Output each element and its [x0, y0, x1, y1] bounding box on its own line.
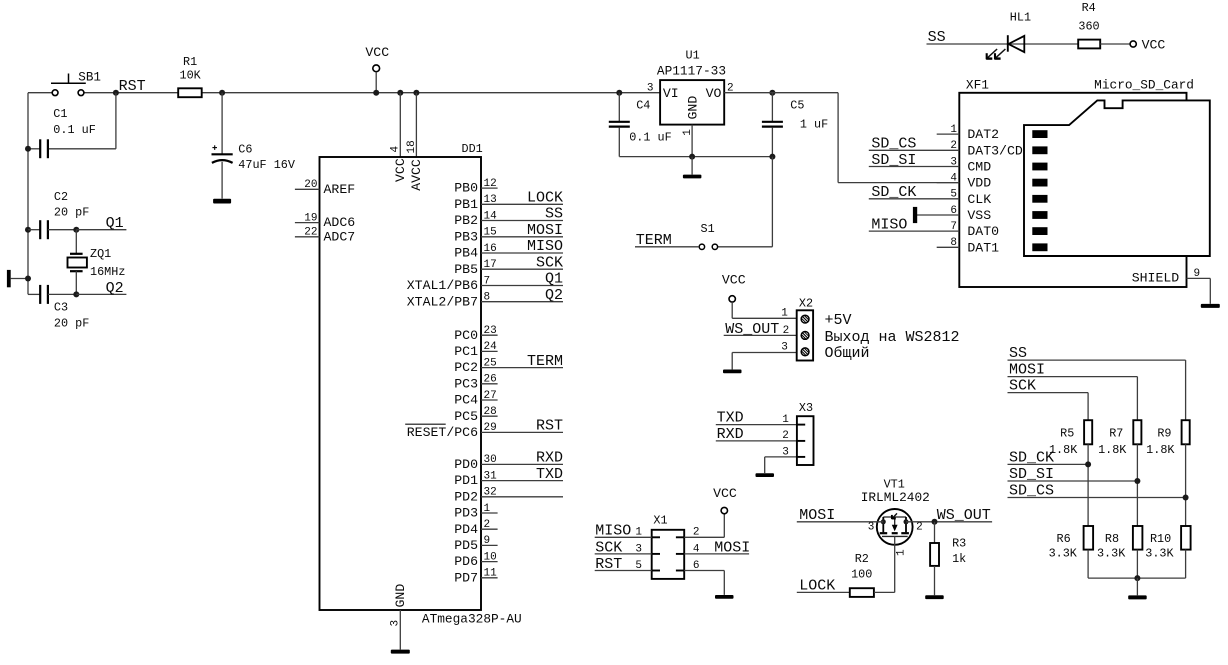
svg-text:15: 15: [484, 227, 497, 239]
svg-text:VO: VO: [706, 86, 722, 101]
svg-text:RXD: RXD: [717, 426, 744, 443]
connector X3 body: [797, 401, 814, 465]
svg-text:3.3K: 3.3K: [1049, 546, 1078, 560]
wire U1 ground net: [619, 125, 775, 175]
svg-text:1 uF: 1 uF: [800, 117, 828, 131]
svg-text:25: 25: [484, 357, 497, 369]
svg-text:30: 30: [484, 454, 497, 466]
svg-text:MISO: MISO: [527, 238, 563, 255]
svg-text:4: 4: [693, 543, 700, 555]
power VCC symbol top: [365, 45, 389, 96]
resistor R5 1.8K: [1049, 420, 1092, 526]
svg-text:CMD: CMD: [967, 160, 991, 175]
node SS net wire to R9: [1008, 345, 1186, 420]
svg-text:24: 24: [484, 341, 498, 353]
svg-text:RESET/PC6: RESET/PC6: [407, 425, 478, 440]
svg-text:WS_OUT: WS_OUT: [725, 321, 779, 338]
svg-text:17: 17: [484, 259, 497, 271]
svg-text:R1: R1: [183, 55, 197, 69]
ground below U1: [683, 175, 702, 179]
svg-text:5: 5: [950, 189, 957, 201]
svg-text:AREF: AREF: [324, 182, 356, 197]
pin 3 GND bottom: [390, 584, 408, 650]
pin 13 PB1 net LOCK: [454, 190, 563, 212]
svg-text:100: 100: [851, 568, 872, 582]
wire VO output rail: [724, 92, 838, 94]
svg-text:Q1: Q1: [545, 271, 563, 288]
svg-text:C1: C1: [53, 107, 67, 121]
svg-text:2: 2: [693, 527, 700, 539]
svg-text:4: 4: [950, 172, 957, 184]
svg-text:SB1: SB1: [78, 70, 101, 84]
svg-text:47uF 16V: 47uF 16V: [238, 158, 296, 172]
svg-text:3: 3: [635, 543, 642, 555]
svg-text:9: 9: [1194, 268, 1201, 280]
svg-text:MOSI: MOSI: [799, 507, 835, 524]
pin 20 AREF: [295, 179, 355, 197]
wire X2 pin 1: [732, 308, 797, 320]
svg-text:32: 32: [484, 487, 497, 499]
svg-text:ADC7: ADC7: [324, 229, 356, 244]
svg-text:Общий: Общий: [825, 345, 870, 362]
regulator U1 AP1117-33: [647, 49, 734, 125]
pin 4 VDD: [937, 172, 992, 190]
svg-text:R2: R2: [855, 552, 869, 566]
svg-text:16: 16: [484, 243, 497, 255]
wire X3 pin 3 to ground: [765, 446, 797, 473]
svg-text:PB5: PB5: [454, 262, 478, 277]
svg-text:Q1: Q1: [106, 215, 124, 232]
wire VT1 gate pin 1: [895, 536, 908, 592]
wire resistor network common to ground: [1088, 575, 1186, 595]
svg-text:3: 3: [868, 522, 875, 534]
pin 8 XTAL2/PB7 net Q2: [407, 287, 563, 309]
svg-text:C5: C5: [790, 99, 804, 113]
svg-text:PC0: PC0: [454, 328, 478, 343]
svg-text:PD6: PD6: [454, 554, 478, 569]
svg-text:VCC: VCC: [1142, 37, 1166, 52]
svg-text:1: 1: [484, 503, 491, 515]
ground below DD1: [391, 650, 410, 654]
svg-text:Micro_SD_Card: Micro_SD_Card: [1094, 77, 1194, 92]
svg-text:R9: R9: [1157, 427, 1171, 441]
svg-text:11: 11: [484, 568, 498, 580]
pin 30 PD0 net RXD: [454, 450, 563, 472]
node SCK net wire X1 pin 3: [595, 539, 652, 556]
svg-text:PD7: PD7: [454, 570, 478, 585]
svg-text:RST: RST: [595, 556, 622, 573]
svg-text:PC4: PC4: [454, 393, 478, 408]
svg-text:DAT3/CD: DAT3/CD: [967, 143, 1022, 158]
svg-text:RXD: RXD: [536, 450, 563, 467]
svg-text:X1: X1: [653, 513, 667, 527]
power VCC above X2: [722, 273, 746, 319]
svg-text:PC5: PC5: [454, 409, 478, 424]
wire RST to C1: [48, 93, 116, 149]
connector XF1 Micro_SD_Card body: [959, 77, 1194, 287]
svg-text:VCC: VCC: [713, 486, 737, 501]
ground below resistor network: [1128, 595, 1147, 599]
svg-text:4: 4: [390, 146, 402, 153]
svg-text:R6: R6: [1057, 532, 1071, 546]
svg-text:3: 3: [781, 342, 788, 354]
node RST net wire X1 pin 5: [595, 556, 652, 573]
svg-text:R7: R7: [1109, 427, 1123, 441]
ground below R3: [925, 595, 944, 599]
svg-text:VI: VI: [663, 86, 679, 101]
svg-text:1: 1: [782, 414, 789, 426]
wire main VCC/RST rail: [28, 92, 660, 94]
svg-text:1.8K: 1.8K: [1098, 443, 1127, 457]
pin 12 PB0: [454, 178, 497, 196]
svg-text:VCC: VCC: [722, 273, 746, 288]
wire VDD link to SD card: [838, 93, 959, 183]
pin 11 PD7: [454, 568, 497, 586]
svg-text:31: 31: [484, 470, 498, 482]
svg-text:Q2: Q2: [106, 280, 124, 297]
svg-text:3.3K: 3.3K: [1145, 546, 1174, 560]
pin 22 ADC7: [295, 227, 355, 245]
svg-text:1: 1: [950, 124, 957, 136]
svg-text:S1: S1: [701, 222, 715, 236]
svg-text:XTAL1/PB6: XTAL1/PB6: [407, 278, 478, 293]
capacitor C6 47uF 16V electrolytic: [212, 90, 296, 199]
svg-text:C4: C4: [636, 99, 650, 113]
svg-text:MISO: MISO: [871, 217, 907, 234]
svg-text:2: 2: [950, 140, 957, 152]
svg-text:0.1 uF: 0.1 uF: [629, 131, 671, 145]
power VCC right of R4: [1130, 37, 1165, 52]
resistor R3 1k: [930, 522, 966, 595]
svg-text:1: 1: [781, 308, 788, 320]
svg-text:TXD: TXD: [717, 410, 744, 427]
svg-text:ADC6: ADC6: [324, 215, 356, 230]
pin 28 PC5: [454, 406, 497, 424]
svg-text:MOSI: MOSI: [527, 222, 563, 239]
wire left vertical bus: [27, 93, 29, 295]
svg-text:R8: R8: [1105, 532, 1119, 546]
SD card outline glyph: [1024, 100, 1210, 256]
svg-text:PD5: PD5: [454, 538, 478, 553]
pin 4 VCC label: [390, 146, 408, 183]
svg-text:AVCC: AVCC: [409, 159, 424, 191]
pin 25 PC2 net TERM: [454, 353, 563, 375]
svg-text:3: 3: [950, 156, 957, 168]
svg-text:X3: X3: [799, 401, 813, 415]
svg-text:SS: SS: [545, 206, 563, 223]
svg-text:ZQ1: ZQ1: [90, 247, 111, 261]
svg-text:IRLML2402: IRLML2402: [861, 490, 930, 505]
wire X1 pin 6 to ground: [684, 560, 724, 595]
svg-text:3: 3: [390, 620, 402, 627]
svg-text:1: 1: [635, 527, 642, 539]
SD card contact pads: [1032, 130, 1047, 251]
svg-text:XF1: XF1: [966, 77, 989, 92]
svg-text:6: 6: [950, 205, 957, 217]
node SD_SI net wire: [1008, 466, 1141, 484]
svg-text:PB4: PB4: [454, 246, 478, 261]
svg-text:RST: RST: [536, 418, 563, 435]
svg-text:16MHz: 16MHz: [90, 265, 125, 279]
wire AVCC pin 18 drop: [413, 90, 419, 157]
node SCK net wire to R5: [1008, 378, 1089, 421]
node WS_OUT net wire from VT1 pin 2: [906, 507, 992, 525]
node WS_OUT2 net wire pin 2: [724, 321, 797, 338]
IC DD1 ATmega328P-AU body: [320, 142, 522, 627]
pin 6 VSS: [913, 205, 991, 223]
svg-text:14: 14: [484, 210, 498, 222]
svg-text:360: 360: [1078, 20, 1099, 34]
svg-text:GND: GND: [686, 96, 701, 120]
svg-text:1: 1: [896, 549, 908, 556]
svg-text:20 pF: 20 pF: [54, 206, 89, 220]
svg-text:VSS: VSS: [967, 208, 991, 223]
svg-text:DAT1: DAT1: [967, 240, 999, 255]
svg-text:HL1: HL1: [1010, 11, 1031, 25]
svg-text:PC3: PC3: [454, 376, 478, 391]
resistor R7 1.8K: [1098, 420, 1141, 526]
svg-text:7: 7: [950, 221, 957, 233]
pin 27 PC4: [454, 390, 497, 408]
pin 9 SHIELD: [1132, 268, 1211, 304]
resistor R6 3.3K: [1049, 526, 1094, 578]
svg-text:2: 2: [916, 522, 923, 534]
svg-text:DAT2: DAT2: [967, 127, 999, 142]
pin 14 PB2 net SS: [454, 206, 563, 228]
svg-text:PB0: PB0: [454, 181, 478, 196]
svg-text:C6: C6: [238, 142, 252, 156]
svg-text:R4: R4: [1082, 1, 1096, 15]
pin 1 PD3: [454, 503, 497, 521]
svg-text:PB2: PB2: [454, 213, 478, 228]
svg-text:18: 18: [406, 140, 418, 153]
resistor R10 3.3K: [1145, 526, 1190, 578]
node SD_CK net wire: [1008, 450, 1092, 468]
crystal ZQ1 16MHz: [68, 230, 126, 295]
svg-text:7: 7: [484, 275, 491, 287]
svg-text:PD0: PD0: [454, 457, 478, 472]
svg-text:MOSI: MOSI: [714, 539, 750, 556]
connector X1 body: [652, 513, 685, 578]
ground below SHIELD: [1201, 304, 1220, 308]
svg-text:PB3: PB3: [454, 229, 478, 244]
svg-text:SD_SI: SD_SI: [871, 152, 916, 169]
svg-text:XTAL2/PB7: XTAL2/PB7: [407, 294, 478, 309]
svg-text:R5: R5: [1060, 427, 1074, 441]
svg-text:22: 22: [304, 227, 317, 239]
ground below C6: [213, 199, 231, 204]
wire VCC pin 4 drop: [397, 90, 403, 157]
svg-text:20: 20: [304, 179, 317, 191]
svg-text:+5V: +5V: [825, 312, 852, 329]
pin 7 XTAL1/PB6 net Q1: [407, 271, 563, 293]
pin 23 PC0: [454, 325, 497, 343]
svg-text:ATmega328P-AU: ATmega328P-AU: [422, 612, 522, 627]
wire X1 pin 2 to VCC: [684, 514, 724, 539]
node Q1 net wire: [73, 215, 126, 233]
ground below X2: [723, 370, 742, 374]
node MOSI net wire to R7: [1008, 362, 1138, 421]
svg-text:PB1: PB1: [454, 197, 478, 212]
svg-text:29: 29: [484, 422, 497, 434]
svg-text:20 pF: 20 pF: [54, 317, 89, 331]
pin 2 PD4: [454, 519, 497, 537]
svg-text:23: 23: [484, 325, 497, 337]
pushbutton SB1: [51, 70, 101, 95]
svg-text:SD_CK: SD_CK: [871, 184, 916, 201]
svg-text:SCK: SCK: [595, 539, 622, 556]
svg-text:R3: R3: [952, 536, 966, 550]
svg-text:RST: RST: [119, 78, 146, 95]
svg-text:VCC: VCC: [393, 158, 408, 182]
node LOCK net wire: [797, 578, 850, 595]
node MISO net wire X1 pin 1: [595, 523, 652, 540]
svg-text:VCC: VCC: [365, 45, 389, 60]
svg-text:10: 10: [484, 551, 497, 563]
pin 1 DAT2: [937, 124, 999, 142]
ground below X3: [756, 473, 775, 477]
svg-text:LOCK: LOCK: [799, 578, 835, 595]
node RST / junction: [113, 78, 146, 96]
resistor R4 360: [1078, 1, 1130, 49]
power VCC above X1: [713, 486, 737, 514]
pin 7 DAT0 net MISO: [869, 217, 999, 240]
svg-text:3: 3: [647, 82, 654, 94]
pin 31 PD1 net TXD: [454, 466, 563, 488]
pin 26 PC3: [454, 374, 497, 392]
node Q2 net wire: [73, 280, 126, 298]
svg-text:DAT0: DAT0: [967, 224, 999, 239]
pin 29 RESET/PC6 net RST: [405, 418, 563, 440]
svg-text:X2: X2: [799, 297, 813, 311]
svg-text:CLK: CLK: [967, 192, 991, 207]
ground below X1: [715, 595, 734, 599]
svg-text:8: 8: [484, 292, 491, 304]
wire X2 pin 3 to ground: [732, 342, 797, 370]
svg-text:SHIELD: SHIELD: [1132, 271, 1180, 286]
svg-text:PC1: PC1: [454, 344, 478, 359]
svg-text:12: 12: [484, 178, 497, 190]
svg-text:6: 6: [693, 560, 700, 572]
node RXD net wire X3 pin 2: [716, 426, 797, 443]
connector X2 screw terminal body: [797, 297, 813, 361]
svg-text:C2: C2: [54, 190, 68, 204]
capacitor C2 20pF: [25, 190, 89, 239]
svg-text:C3: C3: [54, 301, 68, 315]
svg-text:1.8K: 1.8K: [1146, 443, 1175, 457]
node MOSI net wire X1 pin 4: [684, 539, 750, 556]
svg-text:PD4: PD4: [454, 522, 478, 537]
svg-text:GND: GND: [393, 584, 408, 608]
svg-text:2: 2: [782, 430, 789, 442]
pin 3 CMD net SD_SI: [869, 152, 991, 175]
capacitor C3 20pF: [28, 285, 89, 331]
svg-text:TERM: TERM: [636, 232, 672, 249]
pin 9 PD5: [454, 535, 497, 553]
svg-text:WS_OUT: WS_OUT: [937, 507, 991, 524]
resistor R8 3.3K: [1097, 526, 1142, 578]
capacitor C4 0.1uF: [609, 90, 672, 157]
pin 2 DAT3/CD net SD_CS: [869, 136, 1023, 159]
svg-text:3.3K: 3.3K: [1097, 546, 1126, 560]
pin 5 CLK net SD_CK: [869, 184, 991, 207]
switch S1 with TERM net: [635, 157, 772, 250]
svg-text:PD3: PD3: [454, 506, 478, 521]
svg-text:2: 2: [783, 325, 790, 337]
node SD_CS net wire: [1008, 483, 1189, 501]
node SS net wire to LED: [927, 29, 1079, 46]
resistor R2 100: [850, 552, 895, 597]
pin 19 ADC6: [295, 212, 355, 230]
svg-text:SCK: SCK: [536, 254, 563, 271]
node MOSI net wire to VT1 pin 3: [797, 507, 884, 524]
capacitor C1 0.1uF: [25, 107, 96, 158]
pin 18 AVCC label: [406, 140, 424, 191]
capacitor C5 1uF: [762, 90, 828, 157]
svg-text:13: 13: [484, 194, 497, 206]
svg-text:0.1 uF: 0.1 uF: [53, 123, 95, 137]
svg-text:AP1117-33: AP1117-33: [657, 64, 726, 79]
svg-text:2: 2: [484, 519, 491, 531]
svg-text:Выход на WS2812: Выход на WS2812: [825, 329, 960, 346]
svg-text:8: 8: [950, 237, 957, 249]
svg-text:3: 3: [782, 446, 789, 458]
pin 10 PD6: [454, 551, 497, 569]
svg-text:19: 19: [304, 212, 317, 224]
svg-text:TERM: TERM: [527, 353, 563, 370]
node TXD net wire X3 pin 1: [716, 410, 797, 427]
svg-text:9: 9: [484, 535, 491, 547]
transistor VT1 IRLML2402: [861, 478, 930, 545]
svg-text:27: 27: [484, 390, 497, 402]
LED HL1: [986, 11, 1031, 60]
svg-text:TXD: TXD: [536, 466, 563, 483]
svg-text:5: 5: [635, 560, 642, 572]
svg-text:28: 28: [484, 406, 497, 418]
ground left chassis tee: [7, 270, 31, 287]
resistor R1 10K: [178, 55, 202, 97]
pin 15 PB3 net MOSI: [454, 222, 563, 244]
svg-text:PC2: PC2: [454, 360, 478, 375]
resistor R9 1.8K: [1146, 420, 1190, 526]
svg-text:R10: R10: [1150, 532, 1171, 546]
svg-text:10K: 10K: [180, 69, 202, 83]
svg-text:26: 26: [484, 374, 497, 386]
pin 32 PD2: [454, 487, 563, 505]
svg-text:U1: U1: [686, 49, 700, 63]
svg-text:MISO: MISO: [595, 523, 631, 540]
svg-text:VDD: VDD: [967, 176, 991, 191]
svg-text:1k: 1k: [952, 552, 966, 566]
svg-text:PD1: PD1: [454, 473, 478, 488]
svg-text:Q2: Q2: [545, 287, 563, 304]
svg-text:PD2: PD2: [454, 489, 478, 504]
svg-text:1: 1: [682, 129, 694, 136]
svg-text:LOCK: LOCK: [527, 190, 563, 207]
svg-text:SD_CS: SD_CS: [871, 136, 916, 153]
pin 24 PC1: [454, 341, 497, 359]
svg-text:DD1: DD1: [462, 142, 483, 156]
pin 17 PB5 net SCK: [454, 254, 563, 276]
pin 8 DAT1: [937, 237, 999, 255]
pin 16 PB4 net MISO: [454, 238, 563, 260]
